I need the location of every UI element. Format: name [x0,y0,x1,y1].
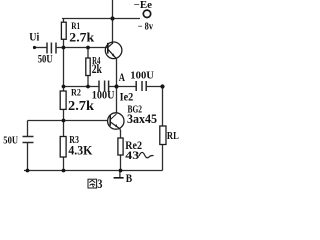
svg-text:Ui: Ui [29,30,40,44]
svg-text:Ie2: Ie2 [120,92,134,104]
svg-text:− 8v: − 8v [138,22,153,33]
svg-text:B: B [126,173,133,185]
svg-text:−Ee: −Ee [134,0,153,11]
svg-text:2.7k: 2.7k [69,30,95,45]
svg-text:100U: 100U [92,87,115,101]
svg-text:A: A [119,72,126,84]
svg-text:3ax45: 3ax45 [127,112,157,126]
svg-text:43: 43 [125,148,139,162]
svg-text:2.7k: 2.7k [68,98,95,113]
svg-text:2k: 2k [92,62,102,76]
svg-text:100U: 100U [130,70,154,82]
svg-text:RL: RL [167,130,179,142]
svg-text:50U: 50U [3,135,18,146]
svg-text:50U: 50U [38,53,53,65]
svg-text:4.3K: 4.3K [68,142,93,157]
svg-text:3: 3 [97,176,103,191]
